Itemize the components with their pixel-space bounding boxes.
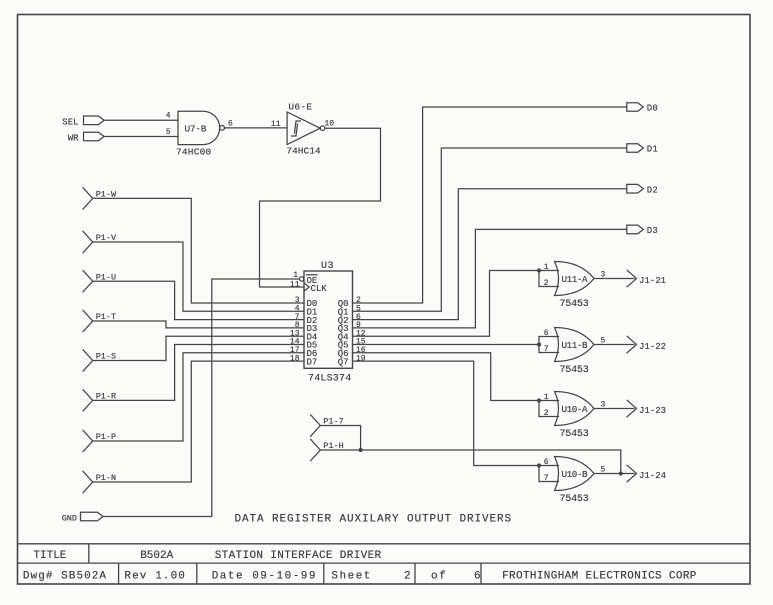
svg-text:GND: GND	[62, 514, 77, 524]
svg-text:U11-B: U11-B	[562, 340, 588, 351]
connector P1-W	[83, 188, 117, 209]
connector flag D1	[627, 144, 644, 153]
U3 pin 13 D4 label	[290, 329, 317, 342]
connector J1-23	[627, 400, 666, 416]
svg-text:6: 6	[228, 119, 233, 128]
connector flag D2	[627, 184, 644, 193]
svg-text:J1-21: J1-21	[639, 276, 666, 286]
svg-text:U6-E: U6-E	[288, 102, 312, 113]
connector flag GND	[81, 512, 104, 521]
junction P1-H at J1-24	[619, 471, 623, 475]
svg-text:75453: 75453	[560, 299, 589, 310]
U11-A output wire pin 3	[594, 271, 634, 280]
connector flag WR	[84, 132, 105, 141]
connector P1-H	[311, 439, 344, 460]
svg-text:Date 09-10-99: Date 09-10-99	[212, 570, 317, 582]
svg-text:D3: D3	[647, 226, 658, 236]
U3 pin 17 D6 label	[290, 346, 317, 359]
svg-text:D7: D7	[307, 357, 318, 367]
wire P1-P to U3 D6	[93, 353, 304, 441]
IC U3 74LS374 body	[304, 271, 353, 368]
75453 OR gate U10-A	[555, 392, 595, 426]
wire U3 Q5 to U11-B	[353, 344, 540, 346]
wire U6-E out to U3 CLK	[260, 128, 381, 287]
svg-text:D2: D2	[647, 185, 658, 195]
svg-text:1: 1	[544, 263, 549, 272]
junction at U10-A input	[537, 398, 541, 402]
svg-text:FROTHINGHAM ELECTRONICS CORP: FROTHINGHAM ELECTRONICS CORP	[502, 570, 697, 582]
connector J1-22	[627, 336, 666, 352]
svg-text:5: 5	[601, 466, 606, 475]
connector J1-21	[627, 270, 666, 286]
U3 pin 5 Q1 label	[338, 305, 361, 318]
svg-text:DATA REGISTER AUXILARY OUTPUT: DATA REGISTER AUXILARY OUTPUT DRIVERS	[235, 514, 513, 526]
U10-A input pins bracket	[539, 393, 559, 418]
75453 OR gate U11-B	[555, 328, 595, 362]
svg-text:1: 1	[544, 393, 549, 402]
U3 pin 6 Q2 label	[338, 313, 361, 326]
svg-text:5: 5	[601, 337, 606, 346]
svg-text:74LS374: 74LS374	[308, 374, 351, 385]
svg-text:18: 18	[290, 354, 300, 363]
svg-text:U11-A: U11-A	[562, 274, 588, 285]
svg-text:U7-B: U7-B	[185, 123, 207, 134]
svg-text:D0: D0	[647, 104, 658, 114]
U3 pin 4 D1 label	[295, 305, 318, 318]
wire U3 Q6 to U10-A	[353, 353, 539, 401]
svg-text:of: of	[431, 570, 447, 582]
wire SEL to U7-B pin 4	[104, 119, 178, 121]
U3 pin 15 Q5 label	[338, 338, 366, 351]
wire P1-S to U3 D4	[93, 336, 304, 360]
svg-text:U3: U3	[321, 261, 334, 272]
wire P1-W to U3 D0	[93, 198, 304, 303]
svg-text:11: 11	[271, 120, 281, 129]
wire U3 Q1 to D1	[353, 148, 627, 311]
connector P1-R	[83, 390, 116, 411]
wire P1-R to U3 D5	[93, 345, 304, 401]
wire U3 Q3 to D3	[353, 229, 627, 328]
svg-text:Rev 1.00: Rev 1.00	[124, 570, 186, 582]
wire U3 Q4 to U11-A	[353, 271, 540, 337]
U7-B pin numbers 4 5 6	[166, 112, 233, 137]
svg-text:2: 2	[544, 409, 549, 418]
wire P1-T to U3 D3	[93, 321, 304, 328]
junction P1-7/P1-H	[359, 448, 363, 452]
wire U3 Q7 to U10-B	[353, 361, 539, 465]
connector flag D0	[627, 103, 644, 112]
svg-text:Dwg# SB502A: Dwg# SB502A	[23, 570, 107, 582]
NAND gate U7-B 74HC00	[178, 111, 225, 144]
svg-text:Q7: Q7	[338, 357, 349, 367]
svg-text:SEL: SEL	[62, 117, 78, 127]
svg-text:7: 7	[544, 345, 549, 354]
U3 pin 18 D7 label	[290, 354, 317, 367]
U10-B output wire pin 5	[594, 466, 634, 475]
wire WR to U7-B pin 5	[104, 136, 178, 138]
svg-text:75453: 75453	[560, 365, 589, 376]
junction at U10-B input	[537, 463, 541, 467]
wire U3 Q2 to D2	[353, 189, 627, 320]
wire U3 Q0 to D0	[353, 107, 627, 303]
svg-text:4: 4	[166, 112, 171, 121]
connector P1-7	[311, 415, 344, 436]
U3 pin 14 D5 label	[290, 338, 317, 351]
U3 pin 2 Q0 label	[338, 296, 361, 309]
wire U7-B out to U6-E in	[225, 127, 288, 129]
svg-text:TITLE: TITLE	[33, 550, 66, 562]
wire P1-H to J1-24 net	[320, 450, 621, 474]
junction at U11-B input	[537, 342, 541, 346]
U11-B output wire pin 5	[594, 337, 634, 346]
wire P1-N to U3 D7	[93, 361, 304, 482]
U10-A output wire pin 3	[594, 401, 634, 410]
connector flag SEL	[84, 116, 105, 125]
U3 pin 19 Q7 label	[338, 354, 366, 367]
svg-text:5: 5	[166, 128, 171, 137]
svg-text:J1-22: J1-22	[639, 342, 666, 352]
U3 pin 9 Q3 label	[338, 321, 361, 334]
svg-text:D1: D1	[647, 145, 658, 155]
svg-text:11: 11	[290, 281, 300, 290]
wire P1-U to U3 D2	[93, 281, 304, 319]
svg-text:74HC00: 74HC00	[176, 147, 212, 158]
U3 pin 8 D3 label	[295, 321, 318, 334]
Schmitt inverter U6-E 74HC14	[287, 112, 325, 145]
svg-text:2: 2	[544, 279, 549, 288]
wire P1-V to U3 D1	[93, 242, 304, 311]
connector flag D3	[627, 225, 644, 234]
svg-text:U10-B: U10-B	[562, 469, 588, 480]
svg-text:J1-24: J1-24	[639, 471, 666, 481]
svg-text:3: 3	[601, 271, 606, 280]
title block lines	[18, 544, 751, 584]
connector P1-T	[83, 310, 116, 331]
junction at U11-A input	[537, 268, 541, 272]
connector P1-U	[83, 271, 116, 292]
svg-text:7: 7	[544, 474, 549, 483]
U3 pin 7 D2 label	[295, 313, 318, 326]
75453 OR gate U10-B	[555, 457, 595, 491]
75453 OR gate U11-A	[555, 262, 595, 296]
svg-text:74HC14: 74HC14	[286, 146, 321, 157]
U10-B input pins bracket	[539, 458, 559, 483]
U11-B input pins bracket	[539, 329, 559, 354]
svg-text:6: 6	[544, 329, 549, 338]
U3 OE pin 1 bubble and label	[293, 271, 317, 286]
svg-text:75453: 75453	[560, 429, 589, 440]
svg-text:J1-23: J1-23	[639, 406, 666, 416]
svg-text:6: 6	[544, 458, 549, 467]
U3 pin 12 Q4 label	[338, 329, 366, 342]
svg-text:2: 2	[404, 570, 411, 582]
U3 CLK pin 11 triangle and label	[290, 281, 327, 295]
svg-text:CLK: CLK	[311, 284, 328, 294]
U3 pin 3 D0 label	[295, 296, 318, 309]
svg-text:10: 10	[325, 120, 335, 129]
connector J1-24	[627, 465, 666, 481]
connector P1-N	[83, 471, 116, 492]
wire GND to U3 OE	[103, 279, 299, 517]
svg-text:Sheet: Sheet	[331, 570, 372, 582]
svg-text:19: 19	[356, 354, 366, 363]
svg-text:U10-A: U10-A	[562, 404, 588, 415]
svg-text:1: 1	[293, 271, 298, 280]
wire P1-7 down to P1-H net	[320, 426, 360, 451]
svg-text:WR: WR	[68, 134, 79, 144]
svg-text:B502A: B502A	[140, 550, 173, 562]
connector P1-P	[83, 430, 116, 451]
svg-text:3: 3	[601, 401, 606, 410]
U3 pin 16 Q6 label	[338, 346, 366, 359]
svg-text:STATION INTERFACE DRIVER: STATION INTERFACE DRIVER	[215, 550, 382, 562]
U11-A input pins bracket	[539, 263, 559, 288]
connector P1-V	[83, 231, 117, 252]
U6-E pin numbers 11 10	[271, 120, 334, 129]
svg-text:75453: 75453	[560, 494, 589, 505]
connector P1-S	[83, 350, 116, 371]
svg-text:6: 6	[474, 570, 481, 582]
